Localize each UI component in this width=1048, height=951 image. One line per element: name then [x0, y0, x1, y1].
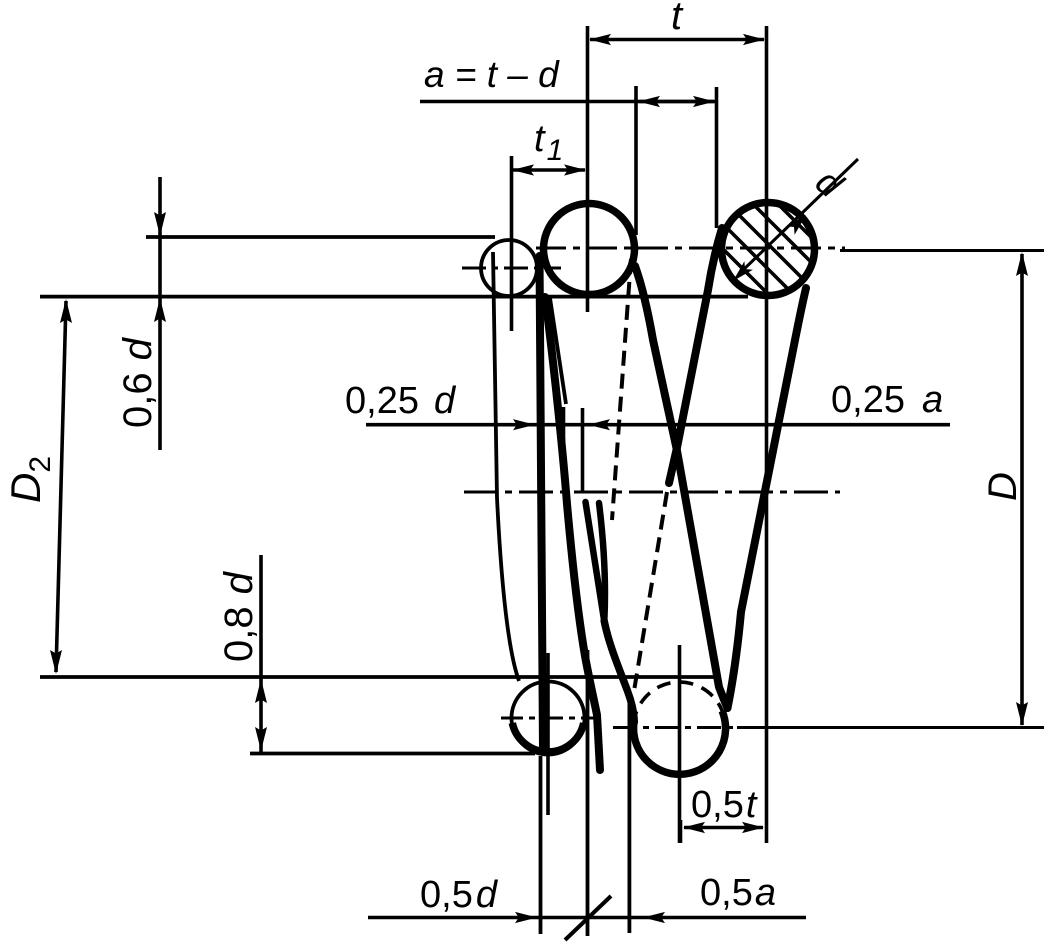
- thin ground-coil edge T1 from C1 down to C4: [493, 252, 519, 681]
- coil cross-section C5 thick bottom arc: [634, 711, 726, 775]
- dimension 0.8d: [259, 555, 263, 752]
- coil cross-section C3 (hatched): [722, 203, 815, 296]
- coil cross-section C1 (small, ground end): [481, 240, 537, 296]
- coil cross-section C4 (thin circle): [512, 682, 585, 755]
- extension line a-dim left: [634, 86, 638, 235]
- dimension a = t - d: [420, 100, 718, 104]
- extension line 0.5a right: [628, 703, 632, 933]
- dimension 0.5d: [368, 916, 806, 920]
- center line of bottom circle C4: [501, 717, 601, 720]
- dimension 0.25d: [366, 423, 950, 427]
- dimension 0.5t: [684, 826, 763, 830]
- extension line a-dim right: [715, 87, 719, 228]
- bottom tangent line of C5 top (D2 lower ref): [40, 675, 717, 679]
- svg-text:t: t: [671, 0, 684, 38]
- coil cross-section C4 thick bottom arc: [512, 723, 583, 752]
- extension tick 0.25a: [581, 408, 585, 492]
- svg-text:0,5a: 0,5a: [700, 872, 776, 914]
- svg-text:D: D: [981, 472, 1025, 501]
- extension line at C2 axis (t left / t1 right): [586, 26, 590, 312]
- wire A from C2 bottom right down to C5 right vertex: [635, 266, 728, 708]
- wire W1 main left near-vertical: [540, 256, 544, 751]
- svg-text:a = t – d: a = t – d: [424, 54, 560, 95]
- D bottom extension line: [737, 726, 1044, 729]
- svg-text:0,25d: 0,25d: [345, 380, 457, 422]
- svg-text:0,25a: 0,25a: [831, 379, 943, 421]
- dimension 0.5a: [643, 912, 665, 923]
- extension line 0.5d right / 0.5a left: [586, 650, 590, 936]
- svg-text:0,5d: 0,5d: [420, 874, 499, 916]
- hidden wire end dashed upper part (from C2 bottom right): [612, 259, 631, 520]
- extension line 0.5t left / C5 axis: [678, 645, 682, 843]
- extension line t1 left / C1 axis: [510, 156, 514, 331]
- dimension t: [590, 38, 764, 42]
- center line of small end-coil circle C1: [462, 267, 561, 270]
- bottom tangent line of C4 (0.8d lower ref): [250, 752, 535, 756]
- top tangent line of C1 (0.6d upper ref): [146, 235, 495, 239]
- ground-end thin sliver line 2: [550, 298, 566, 404]
- spring axis middle center line: [464, 491, 840, 494]
- wire B solid part from C3 bottom left to behind wire A: [669, 228, 722, 483]
- dimension D: [1020, 254, 1024, 725]
- coil cross-section C2: [544, 204, 635, 295]
- hidden wire end sweep into C5 bottom: [604, 621, 634, 722]
- center line of bottom circle C5: [613, 726, 742, 729]
- dimension t1: [513, 168, 585, 172]
- oblique slash on 0.5a extension: [565, 896, 611, 940]
- dimension d (wire diameter, diagonal): [740, 159, 858, 273]
- extension line 0.5d left (below W1): [539, 756, 543, 934]
- hatching of C3: [660, 86, 880, 431]
- D top extension line: [840, 249, 1044, 252]
- coil cross-section C5 dashed top arc: [634, 682, 726, 725]
- svg-text:0,5t: 0,5t: [691, 784, 758, 826]
- svg-text:0,6d: 0,6d: [116, 336, 160, 428]
- dimension 0.6d: [158, 177, 162, 450]
- wire B hidden continuation (dashed) down to C5: [635, 492, 668, 688]
- wire C from C3 bottom right down to C5 right vertex: [728, 288, 807, 708]
- wire end taper right edge: [599, 503, 605, 621]
- wire end taper left edge: [586, 502, 605, 621]
- bottom tangent line of top coils (D2 upper ref): [40, 295, 748, 299]
- ground-end thin sliver line 1: [546, 296, 559, 400]
- dimension 0.25a: [588, 419, 610, 430]
- center line through top coils: [536, 247, 845, 250]
- extension tick 0.25d: [562, 407, 566, 472]
- extension line at C3 axis (t right, down to 0.5t): [765, 26, 769, 843]
- dimension D2: [56, 301, 66, 672]
- svg-text:0,8d: 0,8d: [217, 570, 261, 662]
- wire W3 front coil from C2 left down to ground tip between C4 and C5: [545, 297, 600, 770]
- center line of C4 vertical: [546, 653, 550, 815]
